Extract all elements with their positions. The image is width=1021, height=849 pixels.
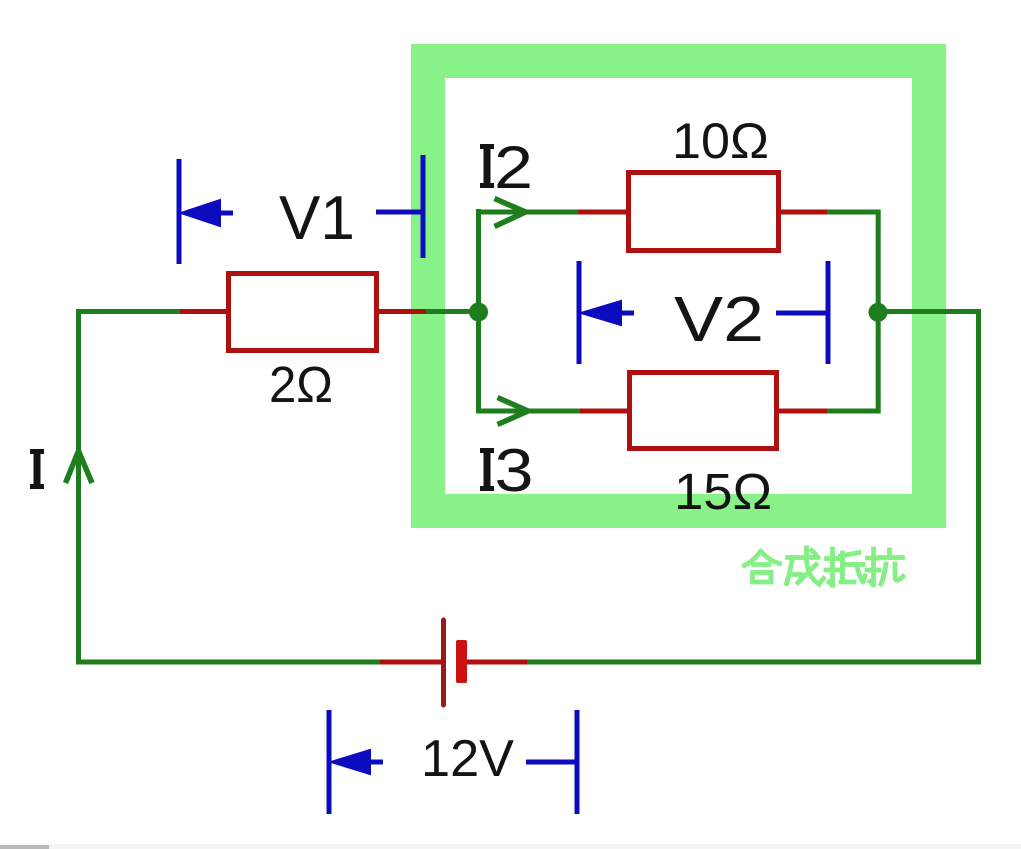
highlight frame (goseiteiko box) bbox=[428, 61, 929, 511]
current arrow I2 on top branch bbox=[495, 199, 526, 227]
wire: top branch right segment bbox=[826, 210, 878, 215]
scrollbar thumb bbox=[0, 845, 49, 849]
current arrow I3 on bottom branch bbox=[498, 398, 529, 425]
svg-text:V2: V2 bbox=[674, 283, 764, 355]
voltmeter V2 arrow stub bbox=[619, 311, 634, 316]
voltmeter 12V arrow bbox=[331, 750, 370, 774]
svg-text:10Ω: 10Ω bbox=[672, 113, 769, 169]
kanji KO bbox=[867, 549, 903, 585]
voltmeter V2 arrow bbox=[581, 301, 621, 325]
resistor R2 10ohm body bbox=[629, 173, 779, 251]
wire: bottom branch left segment bbox=[479, 409, 583, 414]
svg-text:V1: V1 bbox=[279, 184, 355, 253]
voltmeter V1 arrow stub bbox=[218, 211, 233, 216]
voltmeter V2 left bar bbox=[577, 261, 582, 364]
voltmeter 12V right bar bbox=[575, 710, 580, 814]
node A (left junction dot) bbox=[469, 303, 488, 322]
scrollbar track bbox=[0, 844, 1021, 849]
resistor R2 10ohm leads bbox=[578, 210, 827, 215]
kanji TEI bbox=[826, 549, 865, 585]
battery short plate bbox=[456, 640, 467, 683]
wire: bottom branch right segment bbox=[826, 409, 878, 414]
svg-text:2Ω: 2Ω bbox=[269, 356, 333, 413]
wire: right branch vertical bbox=[876, 210, 881, 414]
svg-text:3: 3 bbox=[495, 437, 534, 504]
battery long plate bbox=[441, 620, 446, 705]
kanji GO bbox=[745, 552, 780, 583]
voltmeter V1 right lead line bbox=[376, 210, 423, 215]
battery V 12V leads bbox=[380, 660, 527, 665]
label I bbox=[30, 449, 44, 489]
wire: left branch vertical bbox=[476, 209, 481, 414]
voltmeter 12V arrow stub bbox=[368, 760, 383, 765]
current arrow I on left wire bbox=[66, 451, 93, 483]
voltmeter V2 right lead line bbox=[776, 311, 826, 316]
wire: 2ohm right lead to node A bbox=[424, 309, 480, 314]
resistor R1 2ohm body bbox=[229, 274, 377, 351]
voltmeter V2 right bar bbox=[826, 261, 831, 364]
svg-text:15Ω: 15Ω bbox=[674, 463, 772, 520]
voltmeter 12V left bar bbox=[327, 710, 332, 814]
voltmeter V1 right bar bbox=[421, 155, 426, 258]
wire: top branch left segment bbox=[479, 210, 581, 215]
voltmeter V1 arrow bbox=[181, 200, 220, 226]
voltmeter V1 left bar bbox=[177, 159, 182, 264]
svg-text:12V: 12V bbox=[421, 730, 514, 788]
wire: main loop left+bottom-left bbox=[79, 312, 381, 663]
voltmeter 12V right lead line bbox=[526, 760, 576, 765]
resistor R3 15ohm body bbox=[630, 373, 777, 449]
label gosei teiko (combined resistance) kanji bbox=[745, 548, 904, 585]
label I3 bbox=[480, 437, 534, 504]
label I2 bbox=[480, 134, 533, 201]
node B (right junction dot) bbox=[869, 303, 888, 322]
kanji SEI bbox=[787, 548, 824, 584]
svg-text:2: 2 bbox=[494, 134, 533, 201]
resistor R3 15ohm leads bbox=[580, 409, 827, 414]
resistor R1 2ohm leads bbox=[180, 309, 426, 314]
wire: bottom-right + right vertical bbox=[526, 312, 979, 663]
